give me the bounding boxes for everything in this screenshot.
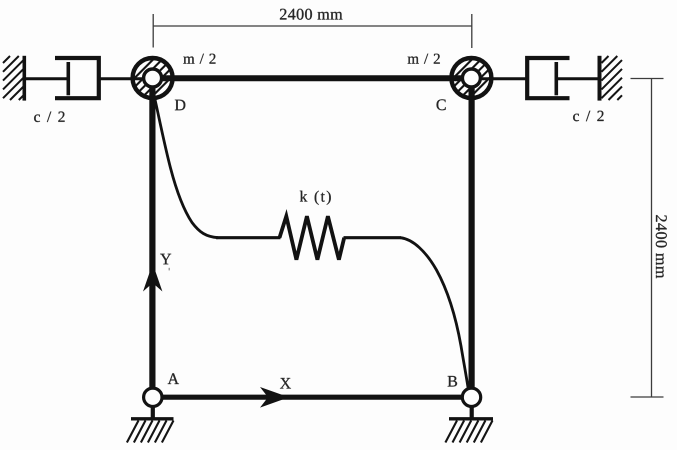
spring lead right <box>344 236 402 239</box>
damper cylinder left <box>55 58 99 98</box>
column CB (right) <box>469 78 475 397</box>
label c/2 left <box>34 112 64 123</box>
label m/2 right <box>408 54 440 64</box>
label c/2 right <box>573 111 603 122</box>
pin support B circle <box>462 388 480 406</box>
pin joint D (hatched ring) <box>105 58 199 98</box>
ground line B <box>449 417 493 420</box>
pin joint C (hatched ring) <box>424 58 518 98</box>
label Y <box>160 254 171 265</box>
beam AB (bottom) <box>152 395 472 400</box>
wall left (hatched) <box>3 56 24 101</box>
tick mark below Y <box>169 268 170 271</box>
support A stem <box>151 406 155 419</box>
spring lead left <box>216 236 281 239</box>
pin support A circle <box>144 388 162 406</box>
X axis arrowhead <box>260 387 289 408</box>
Y axis arrowhead <box>143 264 162 292</box>
damper rod left (cylinder to pin D) <box>100 77 152 80</box>
beam DC (top) <box>152 75 472 81</box>
column DA (left) <box>149 78 155 397</box>
spring curve from D <box>154 95 218 238</box>
ground hatch B <box>445 421 492 443</box>
dimension line top <box>153 14 472 48</box>
label X <box>280 378 291 389</box>
spring k(t) zigzag <box>280 216 345 260</box>
damper rod right (pin C to cylinder) <box>472 77 528 80</box>
label D <box>175 100 185 111</box>
wall right (hatched) <box>600 56 623 101</box>
label B <box>448 376 457 387</box>
damper cylinder right <box>527 58 569 98</box>
label C <box>437 99 446 110</box>
damper rod right (piston to wall) <box>558 77 598 80</box>
label 2400 mm right (rotated) <box>656 215 667 278</box>
ground line A <box>131 417 174 420</box>
damper rod left (wall to piston) <box>26 77 67 80</box>
damper piston plate right <box>554 62 558 95</box>
spring curve to B <box>401 238 469 390</box>
dimension line right <box>631 79 664 398</box>
support B stem <box>470 406 474 419</box>
label k (t) <box>300 191 331 205</box>
ground hatch A <box>127 421 174 443</box>
label 2400 mm top <box>280 9 343 20</box>
label m/2 left <box>183 54 215 64</box>
damper piston plate left <box>67 62 71 95</box>
label A <box>168 373 179 384</box>
